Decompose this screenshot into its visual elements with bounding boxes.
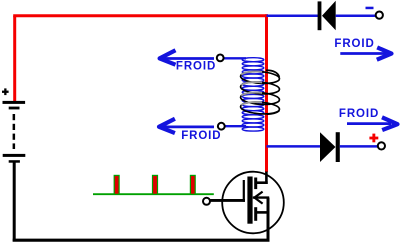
MOSFET Q1 drain tick — [254, 178, 257, 190]
battery B1 bottom cell long plate — [3, 154, 26, 157]
svg-text:FROID: FROID — [176, 61, 216, 73]
terminal T3 (cold out minus) circle — [376, 12, 383, 19]
gate pulse 1 — [114, 175, 119, 194]
svg-text:FROID: FROID — [339, 108, 379, 120]
MOSFET Q1 gate terminal circle — [203, 198, 210, 205]
wire blue diode D2 to terminal — [340, 145, 378, 148]
wire red right vertical (to MOSFET drain) — [265, 14, 268, 172]
MOSFET Q1 drain riser — [265, 172, 268, 185]
wire blue diode D1 to terminal — [336, 14, 376, 17]
MOSFET Q1 drain lead — [256, 181, 268, 184]
wire blue top rail to diode D1 — [267, 14, 319, 17]
battery B1 dashed link — [13, 114, 16, 149]
gate pulse train green baseline — [93, 193, 214, 195]
MOSFET Q1 source lead — [256, 211, 269, 214]
wire black bottom rail — [13, 239, 270, 242]
MOSFET Q1 body arrow — [254, 192, 262, 204]
battery B1 top cell short plate — [9, 107, 20, 110]
wire blue red-rail to diode D2 — [267, 145, 321, 148]
arrow FROID mid-right shaft — [347, 122, 391, 125]
terminal T1 (upper secondary) circle — [217, 55, 224, 62]
primary coil L1 (black) loops — [240, 70, 280, 115]
label plus sign — [369, 134, 378, 143]
MOSFET Q1 body lead — [253, 196, 269, 198]
arrow FROID upper-right head — [377, 47, 392, 59]
terminal T4 (cold out plus) circle — [378, 142, 385, 149]
diode D1 triangle — [322, 1, 336, 30]
MOSFET Q1 source tick — [254, 207, 257, 221]
wire red left vertical (battery + up) — [13, 16, 16, 103]
battery B1 bottom cell short plate — [9, 160, 20, 163]
arrow FROID upper-left head — [160, 50, 176, 64]
arrow FROID upper-right shaft — [340, 52, 386, 55]
arrow FROID lower-left head — [159, 119, 175, 133]
gate pulse 3 — [190, 175, 195, 194]
gate pulse 2 — [153, 175, 158, 194]
diode D2 cathode bar — [336, 132, 340, 162]
terminal T2 (lower secondary) circle — [218, 123, 225, 130]
diode D1 cathode bar — [318, 1, 322, 30]
wire black source riser — [267, 198, 270, 242]
secondary coil L2 (blue) — [242, 58, 264, 131]
wire black battery negative down — [13, 163, 16, 242]
svg-text:FROID: FROID — [181, 130, 221, 142]
MOSFET Q1 channel bar — [247, 177, 252, 224]
wire blue L2 bottom lead — [224, 125, 246, 127]
arrow FROID upper-left shaft — [162, 57, 215, 60]
label minus sign — [366, 7, 374, 10]
svg-text:FROID: FROID — [334, 38, 374, 50]
MOSFET Q1 gate bar — [243, 180, 245, 202]
diode D2 triangle — [320, 132, 336, 162]
arrow FROID lower-left shaft — [161, 126, 214, 129]
MOSFET Q1 envelope circle — [222, 172, 284, 234]
arrow FROID mid-right head — [382, 117, 398, 130]
wire red top horizontal rail — [13, 14, 268, 17]
MOSFET Q1 gate lead — [210, 199, 245, 202]
battery B1 top cell long plate — [3, 101, 26, 104]
wire blue L2 top lead — [223, 57, 247, 59]
battery B1 plus label — [2, 88, 9, 95]
primary coil L1 (black) back strokes — [241, 72, 262, 106]
